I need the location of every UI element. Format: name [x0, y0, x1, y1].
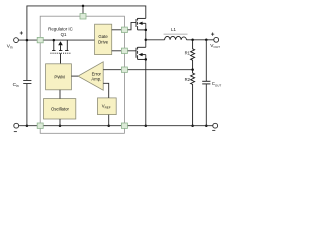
junction R2 ground — [191, 124, 194, 127]
pin ground — [37, 123, 43, 128]
ground terminal right — [213, 123, 218, 128]
wire Vref to ground bus — [108, 115, 110, 126]
pin Vin — [37, 37, 43, 42]
PWM block — [46, 64, 72, 90]
junction Vref ground — [107, 124, 110, 127]
svg-text:Drive: Drive — [98, 39, 109, 44]
svg-text:PWM: PWM — [54, 74, 65, 79]
svg-text:Amp.: Amp. — [91, 77, 101, 82]
junction Cin top — [26, 39, 29, 42]
junction dot on top rail at x=83 — [82, 5, 85, 8]
junction Cin bottom — [26, 124, 29, 127]
transistor Q1 (internal pass FET, rotated symbol) — [50, 40, 70, 64]
wire SW node to L1 — [146, 39, 165, 41]
junction oscillator ground — [59, 124, 62, 127]
node SW junction — [145, 39, 148, 42]
junction Cout top — [205, 39, 208, 42]
top rail wire (Vin to high-side FET drain) — [27, 6, 146, 40]
wire error amp to feedback pin and divider — [103, 69, 192, 71]
pin ground right — [121, 123, 127, 128]
wire gate drive to Q3 gate — [112, 50, 136, 52]
svg-text:L1: L1 — [171, 27, 176, 32]
svg-text:Oscillator: Oscillator — [51, 107, 69, 112]
svg-text:R1: R1 — [185, 50, 191, 55]
capacitor Cout — [205, 40, 207, 81]
transistor Q2 (high-side FET) — [136, 18, 146, 30]
Vout terminal — [214, 37, 219, 42]
junction feedback node — [191, 68, 194, 71]
resistor R2 — [191, 70, 195, 126]
wire error amp to Vref — [103, 83, 109, 98]
junction Q3 ground — [145, 124, 148, 127]
pin gate1 — [121, 27, 127, 32]
svg-text:Regulator IC: Regulator IC — [48, 27, 73, 32]
resistor R1 — [191, 40, 195, 70]
junction Cout ground — [205, 124, 208, 127]
junction L1/R1 — [191, 39, 194, 42]
wire PWM to error amp — [71, 75, 78, 77]
svg-text:Gate: Gate — [98, 34, 108, 39]
oscillator block — [44, 99, 76, 119]
ground terminal left — [14, 123, 19, 128]
wire gate drive to Q2 gate — [112, 22, 136, 29]
inductor L1 — [165, 36, 187, 39]
pin gate2 — [121, 48, 127, 53]
svg-text:Q1: Q1 — [61, 32, 67, 37]
junction Q2 source-body — [145, 29, 148, 32]
regulator IC U1 outline — [40, 16, 124, 133]
pin feedback — [121, 67, 127, 72]
Vref block — [98, 98, 117, 115]
junction Q3 source-body — [145, 58, 148, 61]
wire from top rail down to IC supply pin — [82, 6, 84, 14]
Vin terminal — [14, 38, 19, 43]
svg-text:Error: Error — [92, 71, 102, 76]
svg-text:R2: R2 — [185, 77, 191, 82]
error amp U2 — [78, 62, 103, 90]
ground return wire — [19, 125, 213, 127]
capacitor Cin — [26, 40, 28, 80]
wire L1 to Vout — [187, 39, 214, 41]
wire PWM to oscillator — [59, 90, 61, 99]
gate drive block — [95, 24, 112, 54]
pin Vcc (top) — [80, 14, 86, 19]
wire oscillator to ground bus — [59, 119, 61, 126]
transistor Q3 (low-side FET) — [136, 47, 146, 59]
input wire Vin to gate drive (through Q1 node) — [18, 39, 94, 41]
